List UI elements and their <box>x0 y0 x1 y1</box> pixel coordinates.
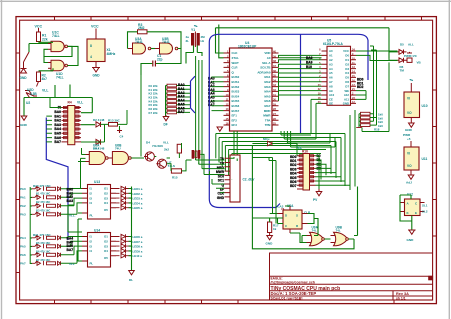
svg-text:I3: I3 <box>90 244 93 248</box>
svg-text:VLL.: VLL. <box>69 214 76 218</box>
inverter gate U3A <box>128 37 151 54</box>
svg-text:GND: GND <box>343 102 349 106</box>
svg-text:BD2: BD2 <box>357 85 364 89</box>
wire oscillator loop <box>128 32 203 75</box>
transistor Q1 <box>144 152 154 161</box>
svg-text:SEL A: SEL A <box>262 61 271 65</box>
svg-text:LED3 a: LED3 a <box>133 197 143 201</box>
svg-text:A0: A0 <box>329 49 333 53</box>
svg-text:O1: O1 <box>104 235 108 239</box>
svg-text:LED1 a: LED1 a <box>133 187 143 191</box>
svg-text:BUS6: BUS6 <box>232 104 240 108</box>
rc row 4 <box>31 212 61 217</box>
ladder bus labels black <box>178 83 185 114</box>
ground rn2 <box>316 189 322 196</box>
svg-text:GND: GND <box>20 123 28 127</box>
svg-text:BUS7: BUS7 <box>232 109 240 113</box>
svg-text:6116LP-70LA: 6116LP-70LA <box>323 42 344 46</box>
svg-text:E: E <box>415 211 417 215</box>
wire cpu-to-memory address lines <box>279 55 322 101</box>
ground pack <box>356 127 362 129</box>
svg-text:LED5 a: LED5 a <box>133 206 143 210</box>
svg-text:EF1: EF1 <box>232 114 238 118</box>
title block <box>270 253 433 300</box>
svg-text:74U: 74U <box>93 147 99 151</box>
resistor R17 <box>268 222 272 233</box>
svg-text:1k: 1k <box>273 227 277 231</box>
svg-text:GND: GND <box>407 238 415 242</box>
svg-text:I3: I3 <box>90 196 93 200</box>
svg-text:VO: VO <box>407 164 412 168</box>
j1 pins <box>225 158 231 197</box>
svg-text:PA0: PA0 <box>20 187 26 191</box>
svg-text:D0: D0 <box>345 54 349 58</box>
svg-text:sh 1/1: sh 1/1 <box>396 297 406 301</box>
svg-text:D1: D1 <box>345 58 349 62</box>
svg-text:BA9: BA9 <box>306 60 313 64</box>
svg-text:O5: O5 <box>104 256 108 260</box>
svg-text:SCavLO1 ruw [S1B]: SCavLO1 ruw [S1B] <box>271 297 303 301</box>
svg-text:PA2: PA2 <box>20 204 26 208</box>
svg-text:R13 39C: R13 39C <box>108 119 121 123</box>
ground <box>163 115 169 121</box>
svg-text:D4: D4 <box>345 71 349 75</box>
svg-text:B3 470 16C: B3 470 16C <box>36 209 50 213</box>
wire cpu left bus taps <box>212 77 224 111</box>
transistor Q2 <box>156 159 166 168</box>
svg-text:B7 470 16C: B7 470 16C <box>36 258 50 262</box>
resistors R18 a-d <box>361 112 371 126</box>
svg-text:MA6: MA6 <box>264 99 270 103</box>
svg-text:OE: OE <box>329 102 333 106</box>
svg-text:TM: TM <box>400 69 405 73</box>
svg-text:VI: VI <box>407 97 410 101</box>
resistor R1 <box>37 32 41 42</box>
diode D6 <box>398 52 413 63</box>
svg-text:VCC: VCC <box>343 49 349 53</box>
svg-text:R15: R15 <box>172 176 178 180</box>
and gate U6A <box>86 144 109 165</box>
wire rc rows to mux2 <box>61 237 83 264</box>
wire d2 r13 <box>81 110 127 142</box>
rn1 pins <box>62 108 82 142</box>
svg-text:BD7: BD7 <box>290 184 297 188</box>
rc row value labels <box>36 192 50 263</box>
title block text <box>271 276 410 300</box>
svg-text:K7 22k: K7 22k <box>149 111 158 115</box>
cpu pin names right column <box>257 51 271 127</box>
svg-text:MA3: MA3 <box>264 85 270 89</box>
wire rn1 G loop <box>50 98 95 125</box>
svg-text:D2: D2 <box>345 62 349 66</box>
svg-text:4MHz: 4MHz <box>107 52 116 56</box>
cpu bus net labels (black) <box>208 77 215 108</box>
memory U5 body <box>327 46 351 105</box>
svg-text:A5: A5 <box>329 71 333 75</box>
svg-text:3L: 3L <box>186 39 190 43</box>
svg-text:74L: 74L <box>312 229 317 233</box>
svg-text:O4: O4 <box>104 201 108 205</box>
inverter U2D <box>25 91 37 98</box>
inverter gate U3B <box>155 37 178 54</box>
svg-text:D7: D7 <box>345 84 349 88</box>
ic U13 body <box>88 185 111 220</box>
svg-text:TPB: TPB <box>265 123 271 127</box>
svg-text:B10: B10 <box>306 65 312 69</box>
svg-text:A9: A9 <box>329 89 333 93</box>
resistor R15 <box>171 169 181 173</box>
svg-text:A8: A8 <box>329 84 333 88</box>
svg-text:A4: A4 <box>329 67 333 71</box>
rn1 element bars <box>64 106 80 138</box>
ic U14 body <box>88 233 111 268</box>
cpu pin names left column <box>232 51 240 127</box>
rc row 7 <box>31 252 61 256</box>
svg-text:SL1: SL1 <box>422 204 428 208</box>
svg-text:BA3: BA3 <box>67 199 74 203</box>
svg-text:BUS4: BUS4 <box>232 94 240 98</box>
svg-text:XTAL: XTAL <box>232 56 240 60</box>
svg-text:A1: A1 <box>329 54 333 58</box>
svg-text:74U1: 74U1 <box>135 40 143 44</box>
svg-text:4.3B: 4.3B <box>30 92 37 96</box>
svg-text:I2: I2 <box>90 192 93 196</box>
rn2 body <box>303 154 310 191</box>
svg-text:74U: 74U <box>115 147 121 151</box>
svg-text:VCC: VCC <box>91 25 99 29</box>
svg-text:A6: A6 <box>329 76 333 80</box>
svg-text:Hz: Hz <box>201 39 205 43</box>
svg-text:VLL: VLL <box>163 141 169 145</box>
svg-text:+5: +5 <box>407 137 411 141</box>
svg-text:MA2: MA2 <box>264 80 270 84</box>
capacitor C1 <box>153 61 156 67</box>
svg-text:2k2: 2k2 <box>164 148 169 152</box>
svg-text:O2: O2 <box>104 192 108 196</box>
svg-text:B5 470 16C: B5 470 16C <box>36 241 50 245</box>
wire ladder common <box>166 86 191 117</box>
svg-text:WE: WE <box>344 89 349 93</box>
svg-text:LED8 a: LED8 a <box>133 245 143 249</box>
svg-text:MA4: MA4 <box>264 90 270 94</box>
cpu left pin numbers <box>226 50 229 126</box>
svg-text:SL2: SL2 <box>422 210 428 214</box>
svg-text:A12: A12 <box>344 93 350 97</box>
wire rn1 left feeds <box>46 98 61 142</box>
ground r17 <box>267 233 273 240</box>
wire rc rows to mux <box>61 189 83 215</box>
svg-text:4k7: 4k7 <box>42 77 48 81</box>
svg-text:GND: GND <box>93 74 101 78</box>
wire mid cluster <box>78 143 210 175</box>
svg-text:A10: A10 <box>329 93 335 97</box>
wire pack common <box>359 46 389 132</box>
svg-text:22k: 22k <box>42 38 48 42</box>
svg-text:BUS3: BUS3 <box>232 90 240 94</box>
crystal Y1 <box>192 26 200 47</box>
regulator VR1 <box>403 80 428 141</box>
u8 pins <box>278 206 308 233</box>
svg-text:LED2 a: LED2 a <box>133 192 143 196</box>
led rows u13 <box>116 186 129 210</box>
rc row 2 <box>31 195 61 200</box>
svg-text:1802CE1UP: 1802CE1UP <box>238 45 257 49</box>
svg-text:MA1: MA1 <box>264 75 270 79</box>
svg-text:O4: O4 <box>104 249 108 253</box>
svg-text:A7: A7 <box>329 80 333 84</box>
wire keypad common vertical <box>30 158 85 264</box>
wire rn2 fanout <box>316 156 351 190</box>
ground lower-left <box>21 116 27 120</box>
svg-text:B6 470 16C: B6 470 16C <box>36 250 50 254</box>
svg-text:BUS2: BUS2 <box>232 85 240 89</box>
wire <box>38 28 40 32</box>
wire long verticals mid <box>141 56 202 169</box>
resistors R5-R12 <box>167 84 177 114</box>
wire j1 feeds <box>196 157 238 193</box>
svg-text:Rev 3A: Rev 3A <box>396 292 409 296</box>
and gate U6B <box>108 144 131 165</box>
svg-text:VCC: VCC <box>35 25 43 29</box>
svg-text:I2: I2 <box>90 240 93 244</box>
svg-text:MCu: MCu <box>263 137 270 141</box>
ground led <box>129 271 135 275</box>
svg-text:GND: GND <box>20 76 28 80</box>
svg-text:D5: D5 <box>400 43 404 47</box>
svg-text:B2 470 16C: B2 470 16C <box>36 200 50 204</box>
svg-text:SC0,TB: SC0,TB <box>260 66 270 70</box>
memory data labels (black) <box>306 56 364 89</box>
or gate U9B <box>331 226 349 246</box>
rn2 element bars <box>299 155 313 187</box>
wire memory ce/oe <box>311 51 398 139</box>
svg-text:LE10 a: LE10 a <box>133 254 143 258</box>
svg-text:74LL: 74LL <box>56 76 64 80</box>
wire mux pl lines <box>68 205 82 261</box>
svg-text:74L: 74L <box>336 229 341 233</box>
svg-text:LED9 a: LED9 a <box>133 249 143 253</box>
svg-text:2M2: 2M2 <box>138 26 145 30</box>
bus tap blocks (black) <box>67 188 74 203</box>
svg-text:BUS1: BUS1 <box>232 80 240 84</box>
ground <box>21 52 30 73</box>
svg-text:B1 470 16C: B1 470 16C <box>36 192 50 196</box>
resistor R13 <box>109 123 118 127</box>
svg-text:PL: PL <box>90 262 94 266</box>
svg-text:R18: R18 <box>374 128 380 132</box>
rc row 5 <box>31 235 61 240</box>
svg-text:ALL: ALL <box>408 43 414 47</box>
opto U12 <box>400 193 428 243</box>
svg-text:8: 8 <box>90 44 92 48</box>
svg-text:VLL: VLL <box>42 89 48 93</box>
svg-text:74U1: 74U1 <box>162 40 170 44</box>
ladder net labels teal <box>149 84 158 115</box>
junction <box>117 128 122 133</box>
svg-text:U2: U2 <box>26 101 30 105</box>
svg-text:O5: O5 <box>104 208 108 212</box>
svg-text:O1: O1 <box>104 187 108 191</box>
svg-text:/h2/tmp/eagle/cosmac.sch: /h2/tmp/eagle/cosmac.sch <box>271 280 316 284</box>
wire cpu top clock feeds <box>216 25 390 59</box>
pack labels <box>374 113 383 132</box>
resistor R3 <box>138 30 148 34</box>
svg-text:VDD: VDD <box>264 51 270 55</box>
j1 pin labels black <box>216 157 225 200</box>
svg-text:U11: U11 <box>422 157 428 161</box>
svg-text:VO: VO <box>407 111 412 115</box>
svg-text:4: 4 <box>90 55 92 59</box>
svg-text:MA5: MA5 <box>264 94 270 98</box>
svg-text:PA7: PA7 <box>20 262 26 266</box>
row labels teal <box>20 184 52 217</box>
svg-text:DF: DF <box>164 123 168 127</box>
memory pin numbers <box>318 49 321 104</box>
cpu left pins <box>224 53 230 125</box>
memory right pins <box>351 51 357 103</box>
svg-text:R16: R16 <box>302 150 308 154</box>
svg-text:O3: O3 <box>104 196 108 200</box>
ground below cpu <box>217 127 223 131</box>
svg-text:PA5: PA5 <box>20 245 26 249</box>
svg-text:MRD: MRD <box>264 109 271 113</box>
svg-text:PL: PL <box>90 214 94 218</box>
svg-text:D3: D3 <box>345 67 349 71</box>
svg-text:CLR: CLR <box>232 66 239 70</box>
rc row 8 <box>31 261 61 266</box>
rc row 3 <box>31 203 61 208</box>
svg-text:D4: D4 <box>146 141 150 145</box>
svg-text:Doc/A: 1 SOA-20E-TEP: Doc/A: 1 SOA-20E-TEP <box>271 291 317 296</box>
svg-text:AdJ: AdJ <box>406 181 412 185</box>
wire d7 row <box>252 144 297 224</box>
svg-text:A2: A2 <box>329 58 333 62</box>
svg-text:LED7 a: LED7 a <box>133 240 143 244</box>
rc row 6 <box>31 244 61 249</box>
bus main (blue) <box>46 34 368 240</box>
svg-text:PA1: PA1 <box>20 196 26 200</box>
rn2 labels black <box>290 155 297 188</box>
diode D3 <box>96 139 101 144</box>
svg-text:EF2: EF2 <box>232 118 238 122</box>
svg-text:CLK: CLK <box>232 51 239 55</box>
svg-text:D5: D5 <box>345 76 349 80</box>
svg-text:BUS0: BUS0 <box>232 75 240 79</box>
svg-text:D2 4148: D2 4148 <box>93 118 105 122</box>
resistor R14 <box>177 144 181 153</box>
memory pin names <box>329 49 335 105</box>
svg-text:TPA: TPA <box>265 118 271 122</box>
svg-text:MA7: MA7 <box>264 104 270 108</box>
u8 body <box>283 210 302 229</box>
svg-text:LA3: LA3 <box>278 205 284 209</box>
svg-text:EF3: EF3 <box>232 123 238 127</box>
svg-text:U14: U14 <box>94 229 100 233</box>
svg-text:C2_dbV: C2_dbV <box>243 178 256 182</box>
svg-text:WAIT: WAIT <box>232 61 239 65</box>
or gate U9A <box>307 226 325 246</box>
rc row 1 <box>31 186 61 191</box>
diode D2 <box>96 122 101 127</box>
j1 body <box>230 155 240 202</box>
svg-text:A3: A3 <box>329 62 333 66</box>
svg-text:PA3: PA3 <box>20 213 26 217</box>
svg-text:VLL: VLL <box>69 262 75 266</box>
svg-text:O3: O3 <box>104 244 108 248</box>
svg-text:BA7: BA7 <box>54 140 61 144</box>
svg-text:I4: I4 <box>90 249 93 253</box>
crystal X2 <box>192 150 201 159</box>
oscillator module X1 <box>87 25 116 78</box>
rn1 net labels black <box>54 106 61 144</box>
cpu right pin numbers <box>273 50 276 126</box>
svg-text:I1: I1 <box>90 235 93 239</box>
svg-text:LED4 a: LED4 a <box>133 201 143 205</box>
svg-text:A0: A0 <box>267 56 271 60</box>
svg-text:S: S <box>296 214 298 218</box>
u13 pins <box>82 189 116 214</box>
regulator VR2 <box>404 141 428 185</box>
svg-text:74LL: 74LL <box>52 34 60 38</box>
wire reset feedback <box>29 42 78 66</box>
led rows u14 <box>116 234 129 258</box>
svg-text:22p: 22p <box>157 57 163 61</box>
svg-text:MWR: MWR <box>263 114 271 118</box>
svg-text:D6: D6 <box>345 80 349 84</box>
svg-text:LED6 a: LED6 a <box>133 235 143 239</box>
svg-text:O2: O2 <box>104 240 108 244</box>
nand gate U1A <box>48 31 67 52</box>
svg-text:Y1: Y1 <box>191 28 195 32</box>
memory left pins <box>322 51 328 103</box>
rn1 body <box>68 106 75 145</box>
svg-text:BUS5: BUS5 <box>232 99 240 103</box>
diode D7 <box>268 141 273 146</box>
svg-text:BA7: BA7 <box>178 110 185 114</box>
svg-text:C4: C4 <box>120 135 124 139</box>
svg-text:U13: U13 <box>94 180 100 184</box>
svg-text:BA8: BA8 <box>306 56 313 60</box>
wire to lower nets <box>24 68 70 116</box>
wire u8/u9 loop <box>252 146 357 249</box>
cpu right pins <box>272 53 279 125</box>
svg-text:U10: U10 <box>422 104 428 108</box>
svg-text:DL: DL <box>129 278 133 282</box>
cpu U4 body <box>230 48 273 131</box>
svg-text:PA4: PA4 <box>20 236 26 240</box>
wire opto loop <box>400 195 412 221</box>
svg-text:74LS06: 74LS06 <box>152 144 163 148</box>
svg-text:VI: VI <box>407 152 410 156</box>
rn2 pins <box>297 156 316 189</box>
svg-text:PWR=VC: PWR=VC <box>404 54 418 58</box>
svg-text:ADR,MA0: ADR,MA0 <box>257 70 271 74</box>
diode D5 <box>398 50 407 55</box>
svg-text:I4: I4 <box>90 201 93 205</box>
svg-text:BA7: BA7 <box>67 248 74 252</box>
svg-text:GND: GND <box>266 242 274 246</box>
svg-text:GND: GND <box>217 196 225 200</box>
wire psu feeds <box>389 52 398 60</box>
svg-text:PA6: PA6 <box>20 253 26 257</box>
wire led common <box>129 187 132 271</box>
resistor R2 <box>37 72 41 87</box>
u14 pins <box>82 237 116 262</box>
svg-text:I1: I1 <box>90 187 93 191</box>
svg-text:R4: R4 <box>68 101 72 105</box>
nand gate U1B <box>48 60 67 79</box>
svg-text:GND: GND <box>405 128 413 132</box>
